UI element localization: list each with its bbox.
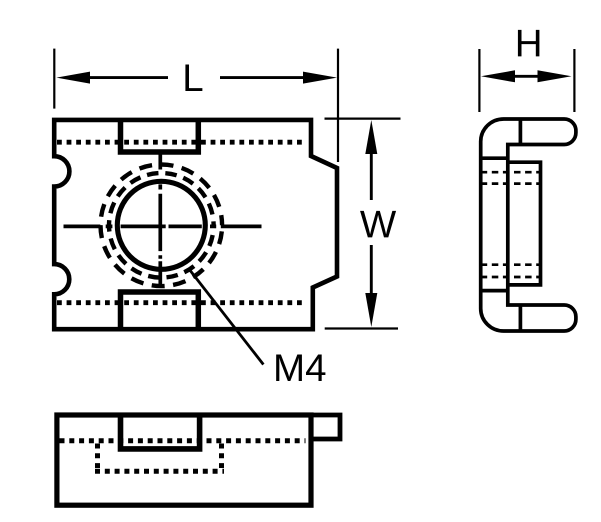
- outer dashed circle: [101, 165, 223, 287]
- front view outline: [57, 415, 311, 505]
- W arrow bottom: [365, 293, 377, 327]
- svg-text:W: W: [360, 203, 397, 246]
- H arrow right: [538, 70, 572, 82]
- front lance tab: [121, 413, 200, 449]
- H arrow left: [481, 70, 515, 82]
- leader line M4: [189, 269, 263, 365]
- L arrow left: [56, 72, 90, 84]
- side view outer contour: [481, 119, 576, 331]
- hidden dashed line 4: [481, 276, 541, 279]
- hidden lance left side: [95, 444, 100, 469]
- L extension line right: [337, 49, 339, 162]
- top lance tab: [121, 119, 199, 153]
- front hidden dotted line: [60, 438, 306, 443]
- W dimension line: [370, 150, 373, 297]
- bottom lance tab: [121, 292, 199, 331]
- hidden dashed line 1: [481, 171, 541, 174]
- H dimension line: [513, 75, 539, 78]
- hidden lance bottom: [95, 469, 224, 474]
- web cross line top: [481, 156, 508, 160]
- bend tangent line bottom arm: [519, 305, 523, 331]
- H extension line right: [573, 49, 575, 112]
- svg-text:L: L: [182, 57, 203, 100]
- vertical centerline: [158, 154, 162, 284]
- bend tangent line top arm: [519, 119, 523, 145]
- cage body outline: [54, 120, 337, 329]
- hidden dashed line 3: [481, 263, 541, 266]
- right clip tab: [311, 415, 340, 439]
- svg-text:M4: M4: [273, 347, 327, 390]
- thread hole circle: [117, 181, 205, 269]
- hidden lance right side: [219, 444, 224, 469]
- L arrow right: [303, 72, 337, 84]
- H extension line left: [478, 49, 480, 112]
- nut block: [508, 162, 541, 285]
- W extension line top: [325, 117, 401, 119]
- hidden dotted line bottom: [57, 300, 306, 305]
- W arrow top: [365, 120, 377, 154]
- inner dashed circle: [109, 173, 214, 278]
- L dimension line: [86, 76, 307, 79]
- hidden dotted line top: [57, 140, 306, 145]
- web cross line bottom: [481, 289, 508, 293]
- svg-text:H: H: [515, 22, 543, 65]
- L extension line left: [53, 49, 55, 109]
- horizontal centerline: [64, 225, 262, 229]
- W extension line bottom: [325, 327, 398, 329]
- hidden dashed line 2: [481, 182, 541, 185]
